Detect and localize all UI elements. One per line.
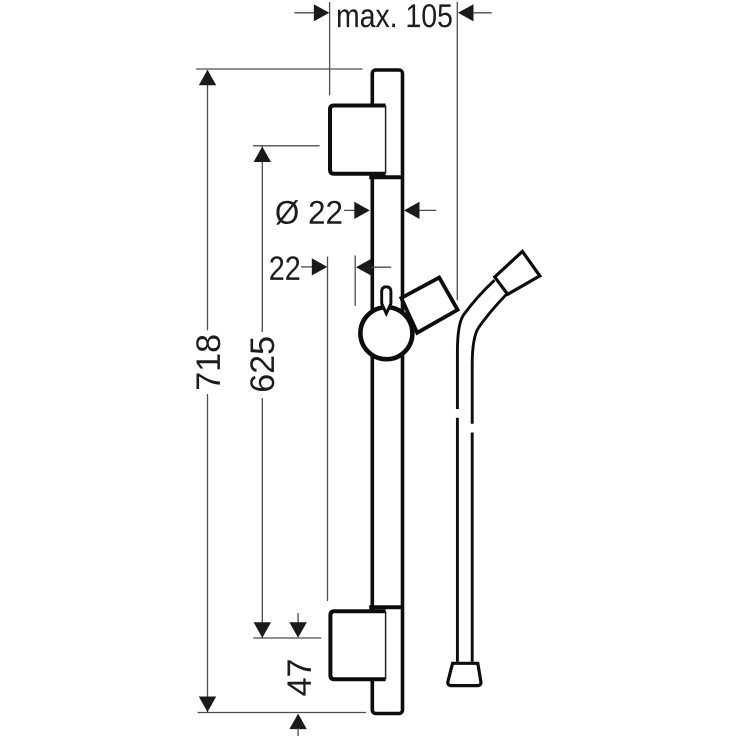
dimension 47 arrows: [289, 613, 306, 736]
dimension max.105 left arrow: [294, 4, 329, 21]
dimension 22 right arrow: [356, 259, 391, 276]
label 625: [250, 337, 274, 391]
slider release knob: [382, 287, 391, 314]
extension line hole bottom: [253, 637, 321, 639]
rail collar line above bottom bracket: [369, 605, 402, 609]
wall bracket top: [330, 106, 386, 174]
label max.105: [338, 4, 452, 27]
extension line rail bottom: [198, 712, 367, 714]
label 718: [196, 335, 220, 389]
handshower holder arm: [401, 278, 457, 333]
extension line hose left: [456, 2, 458, 300]
extension line rail top: [196, 68, 362, 70]
dimension 718 vertical line: [199, 70, 216, 712]
dimension diameter22 left arrow: [344, 202, 370, 219]
dimension diameter22 right arrow: [404, 202, 436, 219]
extension line slider face: [354, 256, 356, 307]
dimension 625 vertical line: [254, 147, 271, 638]
shower hose outer curve: [457, 280, 494, 662]
hose end fitting bottom: [448, 663, 481, 685]
shower hose inner curve: [472, 293, 507, 662]
rail collar line below top bracket: [369, 175, 402, 179]
extension line wall face top: [329, 2, 331, 95]
label diameter 22: [276, 200, 341, 225]
dimension max.105 right arrow: [458, 4, 492, 21]
hose conical connector top: [495, 251, 540, 294]
extension line bracket face: [327, 257, 329, 602]
wall bracket bottom: [330, 611, 385, 679]
label 22: [270, 256, 299, 280]
label 47: [288, 660, 311, 695]
slider roundel: [360, 307, 412, 359]
dimension 22 left arrow: [301, 258, 327, 275]
shower rail tube: [372, 70, 402, 714]
extension line hole top: [253, 145, 320, 147]
